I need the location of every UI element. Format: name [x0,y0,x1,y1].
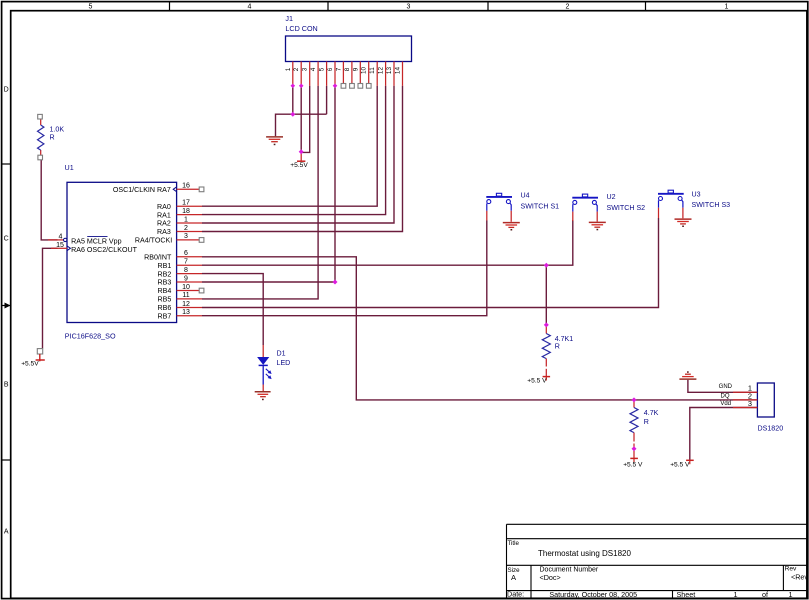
svg-text:1: 1 [724,3,728,10]
svg-text:12: 12 [182,301,190,308]
svg-text:1: 1 [184,216,188,223]
svg-text:7: 7 [335,67,342,71]
svg-text:U3: U3 [692,190,701,198]
no-connect squares J1 pins 7-10 [341,84,371,89]
svg-text:RB7: RB7 [157,312,171,320]
svg-text:LED: LED [277,359,291,367]
svg-text:RB3: RB3 [157,279,171,287]
svg-text:Vdd: Vdd [720,401,731,407]
resistor R 4.7K1 [542,325,573,377]
svg-text:Rev: Rev [785,566,797,573]
ground (S1) [503,223,520,231]
svg-text:<Doc>: <Doc> [540,573,561,582]
wire LCD pin1 to gnd rail [292,86,294,114]
svg-text:8: 8 [344,67,351,71]
svg-text:1: 1 [789,590,793,599]
LED D1 [257,345,290,391]
wire DS1820 GND pin to ground [688,380,757,393]
svg-text:5: 5 [88,3,92,10]
svg-text:RA6 OSC2/CLKOUT: RA6 OSC2/CLKOUT [71,246,137,254]
wire RB1 to switch S2 [202,220,573,265]
DS1820 pin numbers [748,383,752,408]
wire RB0/INT to DQ line [202,257,757,400]
wire LCD pin5 down [326,86,328,114]
svg-text:C: C [4,236,9,243]
ground (S2) [589,222,606,230]
svg-text:6: 6 [184,250,188,257]
svg-text:DQ: DQ [721,394,730,400]
PIC U1 box [65,163,177,341]
svg-text:15: 15 [56,242,64,249]
svg-text:OSC1/CLKIN RA7: OSC1/CLKIN RA7 [113,186,171,194]
svg-text:R: R [644,418,649,426]
svg-text:5: 5 [319,67,326,71]
svg-text:+5.5 V: +5.5 V [623,462,643,469]
U1 clock chevrons [173,187,176,192]
svg-text:RA0: RA0 [157,203,171,211]
power +5.5V (LCD) [290,152,308,169]
svg-text:7: 7 [184,259,188,266]
wire DS1820 Vdd pin to +5.5V [690,408,757,460]
ground (LCD) [266,137,283,145]
U1 pin names [71,186,172,321]
connector J1 LCD CON [285,14,411,62]
wire RB7 to switch S1 [202,221,487,316]
wire R 1.0K to RA5/MCLR [41,160,57,240]
svg-text:J1: J1 [285,14,293,23]
svg-text:Thermostat using DS1820: Thermostat using DS1820 [538,549,631,558]
svg-text:A: A [4,529,9,536]
svg-text:U1: U1 [65,163,74,172]
svg-text:12: 12 [378,67,385,75]
wire RA6 to +5.5V [43,248,58,348]
svg-text:1: 1 [285,67,292,71]
svg-text:18: 18 [182,208,190,215]
svg-text:Sheet: Sheet [677,590,696,599]
svg-text:10: 10 [182,284,190,291]
title block [507,524,807,598]
svg-text:13: 13 [182,309,190,316]
svg-text:2: 2 [293,67,300,71]
svg-text:4: 4 [247,3,251,10]
svg-text:DS1820: DS1820 [758,425,784,433]
svg-text:SWITCH S2: SWITCH S2 [607,204,646,212]
U1 pin 4 inverting bubble [63,238,66,241]
wire LCD pin14 to RA3 [202,86,403,232]
power +5.5V (RA6) [21,349,45,368]
DS1820 pin stubs [733,392,757,407]
svg-text:PIC16F628_SO: PIC16F628_SO [65,332,116,341]
wire LCD pin2 to +5.5V [300,86,302,152]
switch U3 SWITCH S3 [658,190,730,218]
U1 pin numbers [56,183,190,316]
svg-text:3: 3 [302,67,309,71]
DS1820 U? [757,383,783,433]
svg-text:1: 1 [734,590,738,599]
wire LCD pin6 to RB3 [202,86,335,282]
wire LCD pin4 to RB5 [202,86,318,299]
svg-text:U2: U2 [607,193,616,201]
U1 right pin stubs [48,189,202,315]
svg-text:Title: Title [508,540,520,547]
svg-text:RA3: RA3 [157,228,171,236]
svg-text:RB6: RB6 [157,304,171,312]
wire gnd rail horizontal [276,114,327,136]
svg-text:<Rev: <Rev [791,573,808,582]
svg-text:+5.5V: +5.5V [290,162,308,169]
svg-text:GND: GND [719,384,733,390]
svg-text:2: 2 [184,225,188,232]
svg-text:9: 9 [184,275,188,282]
svg-text:4: 4 [310,67,317,71]
svg-text:RB1: RB1 [157,262,171,270]
svg-text:+5.5 V: +5.5 V [527,378,547,385]
svg-text:11: 11 [182,292,189,299]
svg-text:3: 3 [406,3,410,10]
wire RB2 to LED D1 [202,274,263,345]
wire RB6 to switch S3 [202,218,659,308]
wire LCD pin11 to RA0 [202,86,377,206]
wire LCD pin13 to RA2 [202,86,394,223]
svg-text:R: R [50,134,55,142]
svg-text:10: 10 [361,67,368,75]
svg-text:LCD CON: LCD CON [285,24,317,33]
svg-text:1.0K: 1.0K [50,126,65,134]
wire node RB1 down to R 4.7K1 [545,265,547,325]
svg-text:D: D [4,87,9,94]
svg-text:+5.5V: +5.5V [21,361,39,368]
switch U2 SWITCH S2 [572,193,645,221]
wire LCD pin12 to RA1 [202,86,386,215]
svg-text:9: 9 [352,67,359,71]
svg-text:RB4: RB4 [157,287,171,295]
svg-text:SWITCH S3: SWITCH S3 [692,201,731,209]
svg-text:R: R [555,342,560,350]
svg-text:D1: D1 [277,350,286,358]
svg-text:17: 17 [182,200,190,207]
resistor R 4.7K [630,400,659,458]
svg-text:4.7K: 4.7K [644,409,659,417]
power +5.5 V (4.7K) [623,458,643,468]
svg-text:RB5: RB5 [157,296,171,304]
ground (S3) [675,219,692,227]
power +5.5 V (4.7K1) [527,377,550,385]
svg-text:Date:: Date: [507,590,524,599]
resistor R 1.0K [38,114,65,159]
DS1820 pin names [719,384,733,407]
J1 pin stubs 1-14 [293,62,403,86]
svg-text:B: B [4,382,9,389]
svg-text:SWITCH S1: SWITCH S1 [521,202,560,210]
svg-text:2: 2 [565,3,569,10]
ground (LED) [255,392,271,400]
svg-text:RB2: RB2 [157,270,171,278]
svg-text:+5.5 V: +5.5 V [670,462,690,469]
no-connect squares U1 pins 16,3,10 [199,187,204,293]
svg-text:RB0/INT: RB0/INT [144,254,172,262]
svg-text:4: 4 [59,234,63,241]
svg-text:RA4/TOCKI: RA4/TOCKI [135,237,172,245]
wire LCD pin3 to +5.5V node [301,86,310,153]
MCLR overline [87,236,107,238]
svg-text:RA5 MCLR Vpp: RA5 MCLR Vpp [71,237,122,245]
svg-text:11: 11 [369,67,376,74]
switch U4 SWITCH S1 [486,192,559,222]
svg-text:RA2: RA2 [157,220,171,228]
power +5.5 V (DS1820 Vdd) [670,460,694,468]
svg-text:6: 6 [327,67,334,71]
svg-text:13: 13 [386,67,393,75]
svg-text:Saturday, October 08, 2005: Saturday, October 08, 2005 [549,590,637,599]
svg-text:of: of [762,590,768,599]
svg-text:16: 16 [182,183,190,190]
svg-text:3: 3 [184,233,188,240]
ground (DS1820, inverted) [679,371,696,379]
svg-text:U4: U4 [521,192,530,200]
svg-text:3: 3 [748,399,752,408]
svg-text:8: 8 [184,267,188,274]
J1 pin numbers 1-14 (rotated) [285,67,402,75]
svg-text:14: 14 [395,67,402,75]
svg-text:RA1: RA1 [157,211,171,219]
